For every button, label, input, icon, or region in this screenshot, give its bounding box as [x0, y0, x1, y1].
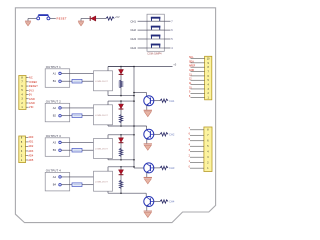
wire — [191, 97, 205, 99]
svg-text:B3: B3 — [53, 148, 57, 152]
connector CON2 analog header — [19, 136, 26, 163]
resistor R12 — [119, 80, 123, 88]
wire — [164, 47, 170, 49]
wire — [146, 173, 148, 178]
wire — [190, 129, 204, 131]
wire — [191, 79, 205, 81]
svg-text:LOMB-DSOT: LOMB-DSOT — [95, 81, 109, 83]
resistor R13 — [160, 99, 168, 102]
wire vertical bus — [133, 67, 135, 160]
resistor R11 — [72, 79, 82, 83]
svg-text:SCL: SCL — [189, 57, 194, 59]
wire — [146, 139, 148, 144]
wire — [146, 105, 148, 110]
svg-text:3V3: 3V3 — [29, 89, 34, 92]
node — [120, 166, 122, 168]
wire — [120, 135, 122, 160]
svg-text:RESET: RESET — [57, 17, 67, 21]
wire — [120, 67, 122, 96]
svg-text:B4: B4 — [53, 183, 57, 187]
wire — [190, 151, 204, 153]
LED D5 — [90, 16, 96, 21]
wire — [191, 84, 205, 86]
wire — [154, 201, 160, 203]
LED D3 — [119, 138, 124, 143]
wire — [120, 167, 122, 193]
wire — [26, 145, 29, 147]
wire — [108, 166, 134, 168]
wire — [191, 58, 205, 60]
svg-text:A3: A3 — [53, 140, 57, 144]
wire — [191, 75, 205, 77]
svg-text:A1: A1 — [53, 71, 57, 75]
wire — [82, 115, 94, 117]
wire — [107, 91, 109, 96]
svg-text:B2: B2 — [53, 114, 57, 118]
wire +5V rail — [108, 66, 173, 68]
wire — [138, 38, 147, 40]
optocoupler U3 — [94, 139, 113, 159]
wire — [26, 89, 29, 91]
wire — [164, 38, 170, 40]
wire — [26, 136, 29, 138]
transistor Q2 — [144, 129, 154, 139]
wire — [108, 66, 134, 68]
svg-text:LOMB-DSOT: LOMB-DSOT — [95, 181, 109, 183]
ground — [144, 178, 152, 184]
jumper link 3 — [147, 36, 164, 40]
ground — [25, 19, 31, 26]
wire — [138, 20, 147, 22]
wire — [145, 193, 147, 197]
wire — [154, 167, 160, 169]
wire — [82, 149, 94, 151]
node — [120, 66, 122, 68]
wire — [108, 159, 134, 161]
wire — [190, 140, 204, 142]
resistor R32 — [119, 148, 123, 156]
svg-text:A4: A4 — [53, 175, 57, 179]
svg-text:6: 6 — [171, 29, 173, 32]
wire — [154, 100, 160, 102]
wire — [108, 125, 147, 127]
wire — [26, 102, 29, 104]
wire — [26, 106, 29, 108]
svg-text:AD0: AD0 — [28, 136, 33, 139]
svg-text:AD2: AD2 — [28, 145, 33, 148]
wire — [82, 80, 94, 82]
wire — [190, 145, 204, 147]
svg-text:GND: GND — [189, 70, 194, 72]
transistor Q4 — [144, 197, 154, 207]
wire — [107, 159, 109, 160]
optocoupler U2 — [94, 105, 113, 125]
svg-text:OUTPUT 2: OUTPUT 2 — [46, 99, 61, 103]
svg-text:LOMB-DSOT: LOMB-DSOT — [95, 115, 109, 117]
wire — [108, 192, 146, 194]
wire — [108, 100, 134, 102]
wire — [154, 133, 160, 135]
wire to Q3 — [133, 160, 135, 168]
node — [120, 95, 122, 97]
terminal block OUTPUT 2 — [45, 103, 69, 122]
node — [120, 159, 122, 161]
svg-text:CH4: CH4 — [169, 200, 175, 204]
svg-text:+5V: +5V — [115, 15, 120, 19]
wire — [26, 85, 29, 87]
resistor R33 — [160, 166, 168, 169]
wire — [61, 80, 72, 82]
wire — [108, 134, 134, 136]
wire — [107, 135, 109, 139]
terminal block OUTPUT 4 — [45, 172, 69, 191]
resistor R21 — [72, 114, 82, 118]
wire — [191, 62, 205, 64]
wire — [81, 18, 90, 20]
wire — [50, 18, 56, 20]
wire — [26, 150, 29, 152]
svg-text:LOMB-DSOT: LOMB-DSOT — [95, 149, 109, 151]
svg-text:CH3: CH3 — [130, 37, 136, 41]
jumper link 2 — [147, 27, 164, 31]
wire — [82, 184, 94, 186]
node — [120, 125, 122, 127]
connector CON5 digital header — [204, 127, 212, 172]
resistor R42 — [119, 180, 123, 188]
svg-text:CH2: CH2 — [169, 132, 175, 136]
svg-text:4: 4 — [171, 47, 173, 50]
resistor R43 — [160, 200, 168, 203]
resistor R22 — [119, 115, 123, 123]
ground — [144, 144, 152, 150]
svg-text:AREF: AREF — [189, 65, 196, 68]
wire — [26, 141, 29, 143]
svg-text:GND: GND — [29, 102, 35, 105]
svg-text:VIN: VIN — [29, 106, 34, 109]
wire — [120, 101, 122, 126]
wire — [26, 154, 29, 156]
svg-text:CH1: CH1 — [169, 99, 175, 103]
svg-text:AD5: AD5 — [28, 159, 33, 162]
svg-text:AD1: AD1 — [28, 141, 33, 144]
connector CON1 power header — [19, 76, 26, 110]
LED D2 — [119, 104, 124, 109]
svg-text:AD3: AD3 — [28, 150, 33, 153]
wire — [61, 176, 94, 178]
pushbutton S1 RESET — [37, 15, 50, 20]
terminal block OUTPUT 3 — [45, 138, 69, 157]
svg-text:+5: +5 — [173, 62, 177, 66]
svg-text:SDA: SDA — [189, 60, 194, 63]
wire — [190, 167, 204, 169]
wire — [26, 77, 29, 79]
svg-text:5V: 5V — [29, 94, 33, 97]
resistor R5 — [106, 17, 114, 20]
ground — [78, 19, 84, 26]
node — [120, 134, 122, 136]
wire — [138, 29, 147, 31]
wire — [61, 107, 94, 109]
wire — [61, 149, 72, 151]
wire — [26, 159, 29, 161]
wire — [134, 92, 147, 94]
node — [120, 100, 122, 102]
svg-text:AD4: AD4 — [28, 154, 33, 157]
wire — [28, 18, 37, 20]
wire — [107, 101, 109, 105]
jumper link 1 — [147, 18, 164, 22]
wire — [146, 126, 148, 130]
ground — [144, 211, 152, 217]
svg-text:NC: NC — [29, 77, 33, 80]
wire — [107, 125, 109, 126]
wire — [190, 156, 204, 158]
svg-text:CH2: CH2 — [130, 28, 136, 32]
wire — [164, 29, 170, 31]
wire — [108, 95, 134, 97]
LED D1 — [119, 70, 124, 75]
svg-text:IOREF: IOREF — [29, 81, 38, 84]
svg-text:CH3: CH3 — [169, 166, 175, 170]
wire — [191, 88, 205, 90]
transistor Q3 — [144, 163, 154, 173]
wire — [107, 167, 109, 171]
jumper block JP1 — [147, 14, 164, 51]
svg-text:B1: B1 — [53, 79, 57, 83]
optocoupler U4 — [94, 171, 113, 191]
wire — [191, 66, 205, 68]
svg-text:CH4: CH4 — [130, 46, 136, 50]
wire — [26, 98, 29, 100]
svg-text:COM-JUMP4: COM-JUMP4 — [147, 53, 162, 56]
wire — [164, 20, 170, 22]
wire — [190, 162, 204, 164]
svg-text:RESET: RESET — [29, 85, 38, 88]
transistor Q1 — [144, 96, 154, 106]
wire — [61, 72, 94, 74]
terminal block OUTPUT 1 — [45, 69, 69, 88]
svg-text:GND: GND — [29, 98, 35, 101]
svg-text:OUTPUT 4: OUTPUT 4 — [46, 169, 61, 173]
wire — [107, 191, 109, 193]
LED D4 — [119, 170, 124, 175]
svg-text:A2: A2 — [53, 106, 57, 110]
svg-text:7: 7 — [171, 20, 173, 23]
wire — [61, 115, 72, 117]
node — [120, 192, 122, 194]
ground — [144, 110, 152, 116]
optocoupler U1 — [94, 71, 113, 91]
svg-text:5: 5 — [171, 38, 173, 41]
resistor R31 — [72, 148, 82, 152]
wire — [191, 71, 205, 73]
wire — [190, 134, 204, 136]
wire — [61, 141, 94, 143]
jumper link 4 — [147, 45, 164, 49]
svg-text:OUTPUT 1: OUTPUT 1 — [46, 65, 61, 69]
wire — [26, 94, 29, 96]
wire — [146, 206, 148, 211]
wire — [138, 47, 147, 49]
wire — [107, 67, 109, 71]
wire — [26, 81, 29, 83]
resistor R41 — [72, 183, 82, 187]
connector CON4 digital header — [205, 56, 212, 100]
wire — [61, 184, 72, 186]
wire — [191, 92, 205, 94]
resistor R23 — [160, 133, 168, 136]
wire — [96, 18, 106, 20]
svg-text:CH1: CH1 — [130, 19, 136, 23]
svg-text:OUTPUT 3: OUTPUT 3 — [46, 134, 61, 138]
